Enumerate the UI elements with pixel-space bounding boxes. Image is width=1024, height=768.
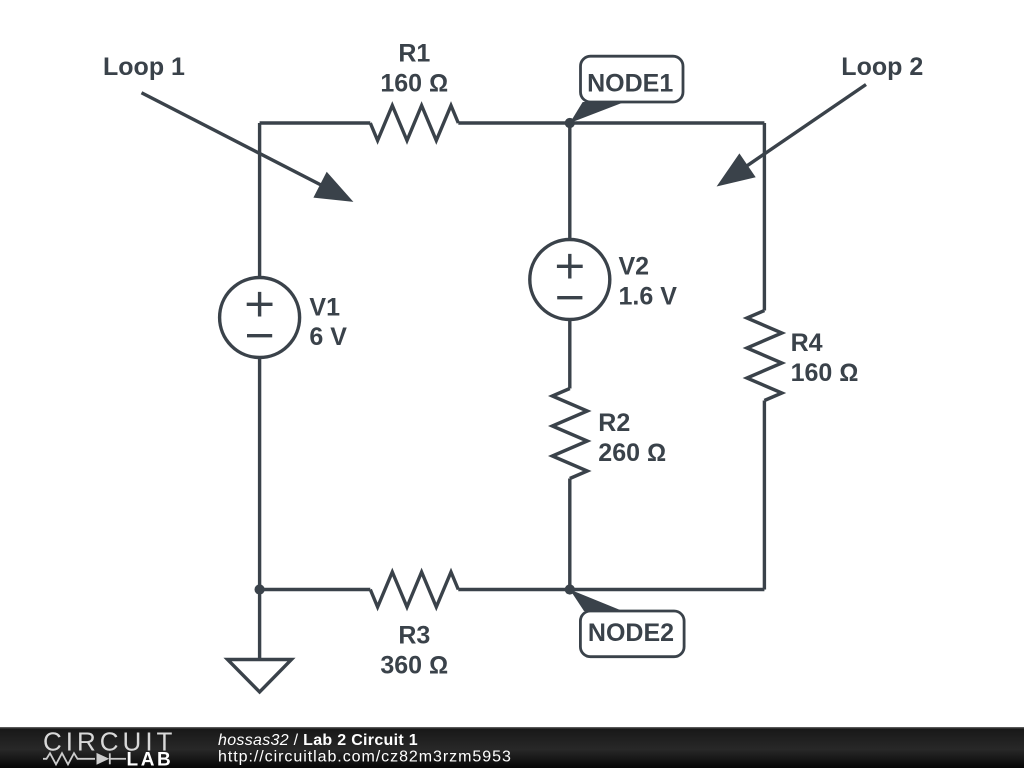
node junction dot at ground — [255, 584, 265, 594]
voltage source V1 — [220, 278, 300, 358]
svg-text:R1: R1 — [398, 40, 430, 68]
wire right vertical upper — [763, 123, 766, 311]
annotation Loop 2 arrow — [747, 85, 866, 166]
wire middle vertical upper — [568, 123, 571, 240]
svg-text:NODE1: NODE1 — [587, 69, 673, 97]
node junction dot NODE2 — [565, 584, 575, 594]
svg-text:R3: R3 — [398, 622, 430, 650]
wire bottom-right horizontal segment — [458, 588, 764, 591]
wire right vertical lower — [763, 401, 766, 590]
svg-text:V2: V2 — [619, 253, 650, 281]
svg-text:R4: R4 — [791, 329, 823, 357]
svg-text:Loop 2: Loop 2 — [841, 53, 923, 81]
resistor R4 — [747, 311, 782, 401]
svg-text:Loop 1: Loop 1 — [103, 53, 185, 81]
svg-text:NODE2: NODE2 — [588, 619, 674, 647]
node NODE2 callout box — [580, 611, 684, 657]
resistor R2 — [552, 389, 587, 479]
svg-text:6 V: 6 V — [309, 323, 347, 351]
svg-text:hossas32 / Lab 2 Circuit 1: hossas32 / Lab 2 Circuit 1 — [218, 732, 418, 749]
wire ground stub — [258, 590, 261, 660]
node junction dot NODE1 — [565, 118, 575, 128]
wire left vertical lower — [258, 358, 261, 590]
svg-text:160 Ω: 160 Ω — [380, 70, 448, 98]
voltage source V2 — [530, 240, 610, 320]
svg-text:160 Ω: 160 Ω — [791, 359, 859, 387]
svg-text:R2: R2 — [598, 409, 630, 437]
svg-text:LAB: LAB — [127, 750, 174, 768]
svg-text:http://circuitlab.com/cz82m3rz: http://circuitlab.com/cz82m3rzm5953 — [218, 748, 512, 765]
resistor R3 — [370, 572, 458, 607]
svg-text:260 Ω: 260 Ω — [598, 439, 666, 467]
node NODE1 callout box — [581, 56, 684, 102]
wire bottom-left horizontal segment — [260, 588, 371, 591]
logo mini schematic glyph — [43, 753, 126, 764]
wire middle below R2 — [568, 479, 571, 590]
ground — [228, 660, 292, 693]
resistor R1 — [370, 106, 458, 141]
wire top-left horizontal segment — [260, 121, 371, 124]
svg-text:360 Ω: 360 Ω — [380, 652, 448, 680]
wire middle between V2 and R2 — [568, 320, 571, 389]
svg-text:V1: V1 — [309, 294, 340, 322]
svg-text:1.6 V: 1.6 V — [619, 283, 678, 311]
wire left vertical upper — [258, 123, 261, 278]
footer bar — [0, 727, 1024, 768]
annotation Loop 1 arrow — [142, 93, 323, 186]
node NODE2 callout tail — [570, 590, 623, 612]
node NODE1 callout tail — [570, 102, 625, 123]
wire top-right horizontal segment — [458, 121, 764, 124]
